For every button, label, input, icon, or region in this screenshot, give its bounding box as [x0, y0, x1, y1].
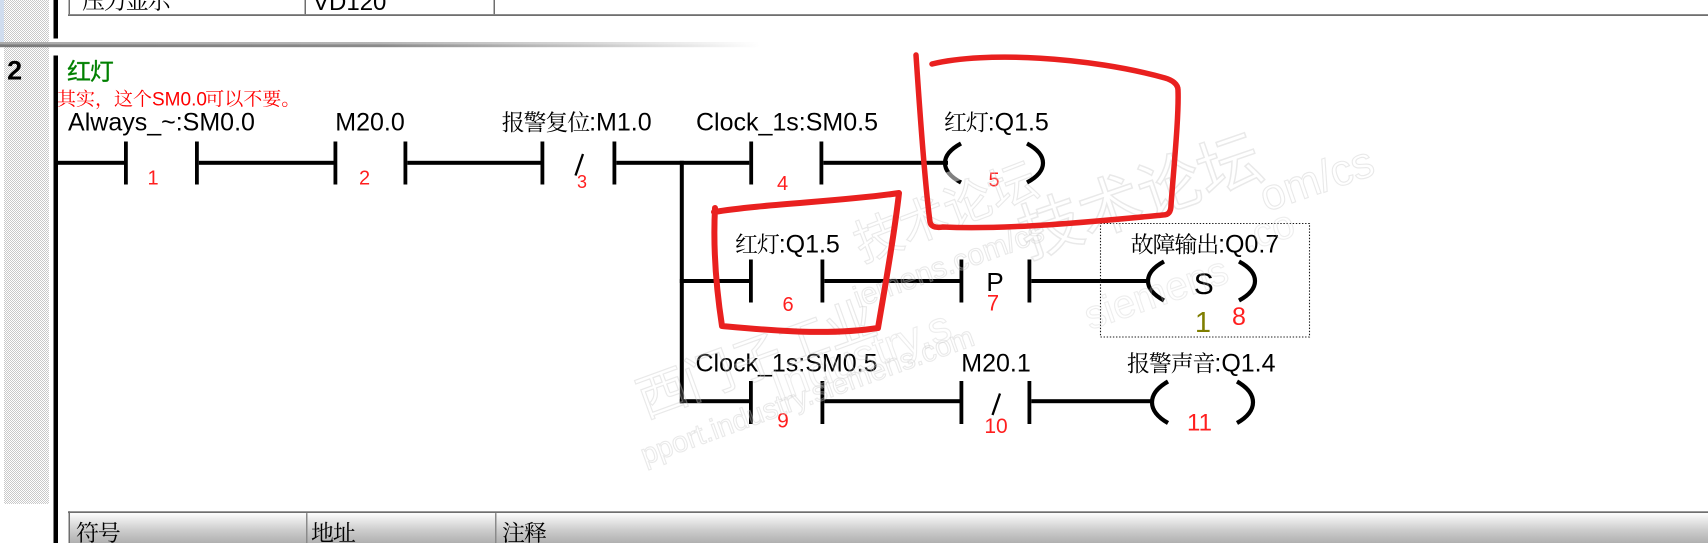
header cell 地址 — [312, 522, 333, 542]
wire contact9 to contact10 — [824, 399, 959, 403]
svg-text::Q1.5: :Q1.5 — [988, 109, 1049, 137]
contact 10 right bar — [1028, 381, 1032, 424]
watermark 技术论坛 (large, right) — [1013, 127, 1266, 262]
wire rail to contact1 — [58, 161, 124, 165]
rung2 label 红灯:Q1.5 — [736, 233, 757, 253]
contact 10 M20.1 left bar (NC) — [960, 381, 964, 424]
contact 6 红灯:Q1.5 left bar — [749, 260, 753, 303]
watermark .co fragment — [1236, 202, 1301, 261]
svg-text:2: 2 — [359, 168, 370, 190]
power rail (network 2) — [54, 56, 59, 543]
contact 1 right bar — [195, 142, 199, 185]
svg-text:Clock_1s:SM0.5: Clock_1s:SM0.5 — [696, 109, 878, 137]
wire contact4 to coil5 — [823, 161, 948, 165]
bottom header divider 2 — [495, 513, 497, 543]
svg-text:M20.0: M20.0 — [335, 109, 404, 137]
contact 1 Always_~:SM0.0 left bar — [124, 142, 128, 185]
svg-text:1: 1 — [1195, 307, 1211, 339]
header cell 符号 — [77, 522, 98, 543]
watermark lightening streak over coil 5 paren — [937, 165, 971, 187]
svg-text:M20.1: M20.1 — [961, 350, 1030, 378]
branch wire vertical (junction to rung3) — [680, 161, 684, 403]
wire branch elbow to contact9 — [680, 399, 749, 403]
contact 4 right bar — [820, 142, 824, 185]
coil11 label 报警声音:Q1.4 — [1128, 352, 1149, 373]
wire contact10 to coil11 — [1031, 399, 1154, 403]
svg-text:11: 11 — [1187, 410, 1212, 437]
watermark Industry ghost (large) — [765, 301, 958, 411]
clipped cell text 压力显示 — [83, 0, 104, 11]
contact 6 right bar — [821, 260, 825, 303]
watermark 西门子工业 (lower left) — [633, 294, 878, 421]
svg-text:6: 6 — [782, 294, 793, 316]
network separator dark band — [0, 44, 760, 47]
svg-text:7: 7 — [987, 291, 999, 316]
wire contact2 to contact3 — [407, 161, 540, 165]
contact 9 right bar — [821, 381, 825, 424]
contact 3 NC slash — [576, 154, 584, 176]
power rail (top network segment) — [54, 0, 59, 39]
gutter dither upper (network 1) — [4, 0, 49, 42]
bottom header left border — [69, 511, 71, 543]
svg-text:SM0.0: SM0.0 — [152, 90, 207, 111]
S coil right paren — [1239, 262, 1255, 301]
svg-text:VD120: VD120 — [313, 0, 386, 16]
svg-text:1: 1 — [147, 168, 158, 190]
svg-text::Q1.5: :Q1.5 — [779, 231, 840, 259]
contact 2 right bar — [404, 142, 408, 185]
svg-text:2: 2 — [7, 56, 22, 86]
wire contact7 to S coil — [1031, 279, 1150, 283]
red freehand loop around coil 5 — [916, 55, 1178, 228]
contact 4 Clock_1s:SM0.5 left bar — [749, 142, 753, 185]
gutter dither lower (network 2) — [4, 47, 49, 504]
watermark support.industry line — [636, 321, 978, 472]
left window edge strip — [0, 0, 4, 46]
dotted selection box around S coil — [1101, 224, 1310, 338]
bottom table top border — [68, 511, 1708, 513]
contact 7 P (positive edge) left bar — [960, 260, 964, 303]
top table divider 2 — [494, 0, 496, 14]
S coil label 故障输出:Q0.7 — [1132, 233, 1154, 254]
contact 9 Clock_1s:SM0.5 left bar — [749, 381, 753, 424]
svg-text:10: 10 — [984, 415, 1007, 438]
header cell 注释 — [503, 522, 524, 543]
rung1 label 报警复位:M1.0 — [502, 111, 523, 132]
wire branch to contact6 — [680, 279, 749, 283]
coil 11 right paren — [1237, 382, 1253, 424]
svg-text:8: 8 — [1232, 303, 1246, 331]
watermark 技术论坛 (small, left) — [849, 156, 1041, 265]
contact 7 right bar — [1028, 260, 1032, 303]
coil 5 right paren — [1027, 144, 1043, 183]
coil 11 报警声音:Q1.4 left paren — [1152, 382, 1168, 424]
top symbol table bottom border — [68, 14, 1708, 16]
contact 10 NC slash — [993, 394, 1001, 416]
red freehand loop around contact 6 — [714, 193, 899, 332]
watermark siemens.com/cs (small) — [849, 215, 1048, 314]
svg-text::M1.0: :M1.0 — [589, 109, 652, 137]
wire contact1 to contact2 — [199, 161, 334, 165]
watermark om/cs tail (large) — [1253, 137, 1380, 222]
bottom header divider 1 — [306, 513, 308, 543]
S coil 故障输出:Q0.7 left paren — [1148, 262, 1164, 301]
wire contact6 to contact7 — [824, 279, 959, 283]
network comment red text 其实，这个SM0.0可以不要。 — [58, 90, 75, 107]
network title 红灯 (green) — [68, 60, 90, 81]
network separator light band — [0, 42, 760, 44]
svg-text:4: 4 — [777, 173, 788, 195]
top table divider 1 — [305, 0, 307, 14]
contact 3 报警复位:M1.0 left bar (NC) — [541, 142, 545, 185]
wire contact3 to contact4 (passes branch node) — [616, 161, 749, 165]
svg-text::Q1.4: :Q1.4 — [1214, 350, 1275, 378]
bottom table header background — [70, 513, 1708, 543]
svg-text:Always_~:SM0.0: Always_~:SM0.0 — [68, 109, 255, 137]
contact 3 right bar — [613, 142, 617, 185]
coil5 label 红灯:Q1.5 — [945, 111, 966, 131]
top table left border — [69, 0, 71, 14]
svg-text:3: 3 — [577, 172, 587, 192]
coil 5 红灯:Q1.5 left paren — [945, 144, 961, 183]
contact 2 M20.0 left bar — [334, 142, 338, 185]
watermark siemens ghost (large) — [1079, 248, 1234, 338]
